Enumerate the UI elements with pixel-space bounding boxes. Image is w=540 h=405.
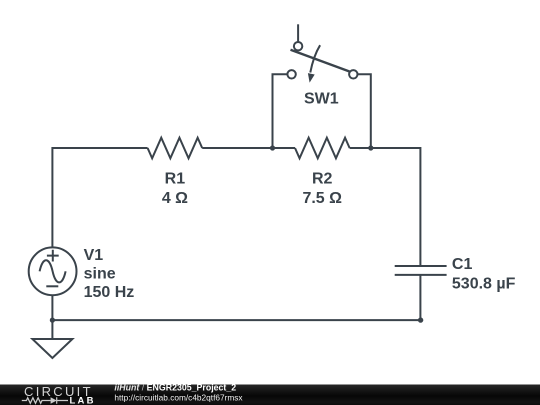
- wire R2 to node B: [350, 147, 371, 149]
- node B: [368, 145, 373, 150]
- svg-text:C1: C1: [452, 256, 473, 273]
- switch SW1 right branch wire: [357, 74, 371, 148]
- switch SW1: [287, 42, 357, 79]
- svg-text:R1: R1: [165, 170, 186, 187]
- svg-text:sine: sine: [84, 266, 116, 283]
- svg-text:150 Hz: 150 Hz: [84, 284, 135, 301]
- svg-text:SW1: SW1: [304, 91, 339, 108]
- switch SW1 pole stub wire: [297, 24, 299, 42]
- wire V1 bottom to node D: [51, 295, 53, 320]
- wire left loop: V1 top to R1 left: [52, 148, 147, 247]
- wire C1 bottom to node C: [419, 275, 421, 320]
- ground: [32, 320, 72, 358]
- wire bottom rail: [52, 319, 420, 321]
- capacitor C1 plates: [395, 266, 447, 275]
- footer bar: [0, 385, 540, 405]
- switch SW1 left branch wire: [273, 74, 288, 148]
- svg-text:7.5 Ω: 7.5 Ω: [302, 190, 342, 207]
- svg-text:V1: V1: [84, 247, 104, 264]
- wire node A to R2: [273, 147, 296, 149]
- node D: [50, 318, 55, 323]
- svg-text:4 Ω: 4 Ω: [162, 190, 188, 207]
- wire node B to C1 top: [371, 148, 421, 266]
- node C: [418, 317, 423, 322]
- switch SW1 arrowhead: [308, 73, 315, 83]
- wire R1 to node A: [202, 147, 272, 149]
- voltage source V1: [29, 247, 77, 295]
- svg-text:530.8 µF: 530.8 µF: [452, 275, 516, 292]
- footer logo resistor-diode icon: [22, 397, 68, 403]
- svg-text:iiHunt / ENGR2305_Project_2: iiHunt / ENGR2305_Project_2: [114, 382, 236, 392]
- resistor R1: [148, 138, 203, 159]
- svg-text:http://circuitlab.com/c4b2qtf6: http://circuitlab.com/c4b2qtf67rmsx: [114, 392, 243, 402]
- node A: [270, 145, 275, 150]
- svg-text:LAB: LAB: [70, 395, 96, 405]
- svg-text:R2: R2: [312, 170, 333, 187]
- resistor R2: [295, 138, 350, 159]
